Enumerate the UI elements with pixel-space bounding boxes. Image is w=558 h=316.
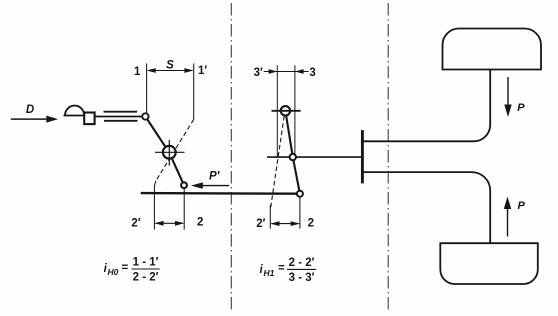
- threaded rod (3 lines): [95, 112, 143, 121]
- svg-text:=: =: [278, 263, 285, 275]
- svg-text:H1: H1: [264, 268, 275, 278]
- svg-text:2′: 2′: [256, 218, 265, 230]
- svg-text:P′: P′: [209, 171, 221, 183]
- svg-text:2′: 2′: [131, 217, 140, 229]
- svg-text:3: 3: [309, 67, 315, 79]
- middle joint: [290, 154, 296, 160]
- formula iH0: [104, 257, 159, 284]
- svg-text:1 - 1′: 1 - 1′: [133, 257, 159, 269]
- top rail to wheel: [362, 70, 490, 142]
- extension line 2 left: [183, 189, 185, 230]
- lever link 1-pivot: [145, 117, 169, 153]
- svg-text:P: P: [518, 200, 526, 212]
- dimension S: [147, 68, 194, 73]
- svg-text:2: 2: [197, 217, 203, 229]
- centerline left: [230, 3, 232, 313]
- top wheel pad: [443, 29, 542, 70]
- svg-text:2 - 2′: 2 - 2′: [133, 272, 159, 284]
- joint 2: [181, 182, 187, 188]
- svg-text:P: P: [517, 102, 525, 114]
- svg-text:2 - 2′: 2 - 2′: [289, 257, 315, 269]
- extension line 2 middle: [299, 197, 301, 228]
- dimension 2'-2 left: [154, 221, 184, 226]
- svg-text:2: 2: [308, 217, 314, 229]
- joint 2 middle: [297, 191, 303, 197]
- middle lever link mid-2: [293, 157, 300, 194]
- bottom wheel pad: [440, 243, 538, 284]
- svg-text:=: =: [122, 262, 129, 274]
- fraction bar iH0: [132, 268, 160, 270]
- extension line 1: [146, 64, 148, 113]
- svg-text:3 - 3′: 3 - 3′: [289, 272, 315, 284]
- input force arrow D: [11, 116, 58, 123]
- axle flange: [361, 130, 364, 183]
- formula iH1: [260, 257, 315, 284]
- svg-text:3′: 3′: [254, 67, 263, 79]
- extension line 3': [276, 65, 278, 157]
- joint 3 with crossbar: [272, 106, 301, 115]
- extension line 3: [294, 65, 296, 157]
- middle lever link 3-mid: [285, 111, 292, 157]
- fraction bar iH1: [287, 268, 316, 270]
- svg-text:S: S: [166, 59, 174, 71]
- svg-text:1′: 1′: [198, 65, 207, 77]
- centerline right: [387, 3, 389, 310]
- extension line 1': [193, 64, 195, 120]
- svg-text:H0: H0: [108, 267, 119, 277]
- dashed alternate lever position 1'-2': [156, 119, 194, 180]
- force arrow P top: [504, 77, 511, 117]
- joint 1: [142, 113, 148, 119]
- pivot H0: [155, 140, 185, 166]
- master cylinder dome: [64, 106, 86, 116]
- svg-text:1: 1: [134, 66, 141, 78]
- pushrod block: [84, 113, 94, 125]
- dimension 3'-3: [264, 69, 309, 74]
- extension line 2' middle: [269, 205, 271, 229]
- lever link pivot-2: [169, 153, 184, 186]
- extension line 2' left: [154, 181, 156, 230]
- force arrow P bottom: [504, 197, 511, 237]
- svg-text:D: D: [26, 104, 34, 116]
- tie rod: [141, 192, 300, 195]
- dimension 2'-2 middle: [270, 221, 300, 226]
- bottom rail to wheel: [362, 172, 490, 243]
- output rod: [267, 156, 362, 158]
- dashed alternate position 3'-2': [270, 116, 284, 210]
- force arrow P': [191, 182, 230, 188]
